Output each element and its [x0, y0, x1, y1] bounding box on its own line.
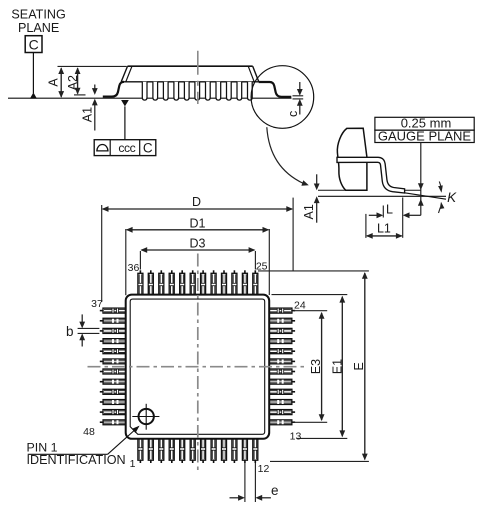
- dimension b: [78, 327, 100, 329]
- body left chamfer edges: [121, 66, 127, 82]
- pin 24 right: [292, 310, 295, 312]
- seating plane line: [8, 97, 292, 99]
- side view lead 12: [248, 82, 253, 100]
- side view lead 3: [153, 82, 158, 100]
- pin 35 top: [150, 270, 152, 273]
- pin 10 bottom: [233, 460, 235, 463]
- side view lead 10: [227, 82, 232, 100]
- 0.25 mm box: [375, 117, 474, 130]
- pin 15 right: [292, 401, 295, 403]
- pin 1 bottom: [139, 460, 141, 463]
- left gull-wing lead: [103, 82, 124, 97]
- pin 13 right: [292, 421, 295, 423]
- pin 25 top: [254, 270, 256, 273]
- pin 12 bottom: [254, 460, 256, 463]
- pin 18 right: [292, 371, 295, 373]
- pin 29 top: [213, 270, 215, 273]
- pin 11 bottom: [244, 460, 246, 463]
- pin 14 right: [292, 411, 295, 413]
- pin 47 left: [100, 411, 103, 413]
- svg-text:SEATING: SEATING: [11, 8, 65, 22]
- pin 23 right: [292, 320, 295, 322]
- svg-text:K: K: [447, 190, 457, 205]
- svg-text:36: 36: [128, 262, 140, 274]
- pin 30 top: [202, 270, 204, 273]
- dimension L: [369, 214, 379, 216]
- pin 45 left: [100, 391, 103, 393]
- datum C box: [25, 36, 42, 53]
- datum C leader and triangle: [32, 53, 34, 94]
- svg-text:E3: E3: [309, 359, 323, 374]
- svg-text:25: 25: [256, 260, 268, 272]
- pin 1 identifier circle: [139, 409, 154, 424]
- pin 48 left: [100, 421, 103, 423]
- dimension D: [101, 205, 103, 302]
- svg-text:IDENTIFICATION: IDENTIFICATION: [27, 453, 126, 467]
- pin 5 bottom: [181, 460, 183, 463]
- pin 20 right: [292, 350, 295, 352]
- dimension c: [299, 82, 301, 91]
- pin 42 left: [100, 360, 103, 362]
- side view lead 4: [163, 82, 168, 100]
- svg-text:PLANE: PLANE: [18, 21, 59, 35]
- svg-text:A1: A1: [80, 107, 94, 122]
- side view lead 5: [174, 82, 179, 100]
- pin 28 top: [223, 270, 225, 273]
- pin 39 left: [100, 330, 103, 332]
- dimension D3: [139, 251, 141, 270]
- dimension A1 detail: [316, 174, 318, 185]
- right gull-wing lead: [259, 82, 292, 97]
- svg-text:D3: D3: [190, 236, 206, 250]
- pin 19 right: [292, 360, 295, 362]
- pin 40 left: [100, 340, 103, 342]
- dimension e: [244, 463, 246, 502]
- pin 2 bottom: [150, 460, 152, 463]
- side view lead 8: [206, 82, 211, 100]
- svg-text:C: C: [29, 36, 39, 52]
- pin 41 left: [100, 350, 103, 352]
- K foot angle line: [405, 193, 446, 199]
- svg-text:A: A: [47, 78, 61, 87]
- pin 8 bottom: [213, 460, 215, 463]
- package body inner edge with pin1 chamfer: [130, 299, 265, 434]
- pin 43 left: [100, 371, 103, 373]
- top view horizontal centerline: [88, 366, 307, 368]
- pin 32 top: [181, 270, 183, 273]
- dimension D1: [125, 229, 127, 295]
- svg-text:e: e: [271, 483, 279, 498]
- package body side view bottom edge: [121, 81, 258, 83]
- pin 7 bottom: [202, 460, 204, 463]
- dimension A2: [74, 94, 86, 96]
- pin 36 top: [139, 270, 141, 273]
- dimension L1: [365, 214, 367, 238]
- dimension A: [60, 68, 62, 97]
- pin 6 bottom: [192, 460, 194, 463]
- gauge plane pointer line: [420, 143, 422, 216]
- dimension E: [258, 270, 369, 272]
- package body outline: [126, 295, 270, 439]
- side view lead 11: [237, 82, 242, 100]
- flatness symbol: [96, 145, 108, 151]
- pin 33 top: [171, 270, 173, 273]
- svg-text:L1: L1: [377, 221, 391, 235]
- pin 38 left: [100, 320, 103, 322]
- pin 34 top: [160, 270, 162, 273]
- gauge plane line: [318, 189, 367, 191]
- pin 46 left: [100, 401, 103, 403]
- dimension A1 side view: [94, 85, 96, 91]
- dimension E1: [272, 294, 348, 296]
- pin 9 bottom: [223, 460, 225, 463]
- detail body section: [337, 128, 367, 190]
- svg-text:c: c: [286, 111, 300, 117]
- dimension A extension line: [58, 65, 127, 67]
- svg-text:C: C: [143, 141, 153, 156]
- body right chamfer edges: [253, 66, 259, 82]
- svg-text:12: 12: [258, 463, 270, 475]
- pin 17 right: [292, 381, 295, 383]
- GAUGE PLANE box: [375, 130, 474, 142]
- svg-text:37: 37: [91, 298, 103, 310]
- pin 3 bottom: [160, 460, 162, 463]
- pin 37 left: [100, 310, 103, 312]
- svg-text:1: 1: [130, 458, 136, 470]
- svg-text:b: b: [66, 324, 74, 339]
- pin 26 top: [244, 270, 246, 273]
- svg-text:A2: A2: [66, 75, 80, 90]
- svg-text:L: L: [386, 203, 393, 217]
- pin 44 left: [100, 381, 103, 383]
- svg-text:ccc: ccc: [118, 141, 135, 155]
- K angle arrows and label: [439, 182, 441, 187]
- package body side view top edge: [128, 65, 253, 67]
- pin 1 leader line: [28, 453, 108, 455]
- svg-text:24: 24: [294, 299, 306, 311]
- pin 16 right: [292, 391, 295, 393]
- ccc datum triangle and leader: [121, 100, 129, 106]
- pin 4 bottom: [171, 460, 173, 463]
- svg-text:D1: D1: [190, 216, 206, 230]
- dimension c extension lines: [293, 95, 304, 97]
- side view lead 2: [142, 82, 147, 100]
- svg-text:A1: A1: [302, 204, 316, 219]
- pin 22 right: [292, 330, 295, 332]
- side view lead 7: [195, 82, 200, 100]
- side view lead 6: [184, 82, 189, 100]
- pin 27 top: [233, 270, 235, 273]
- svg-text:E: E: [352, 362, 366, 370]
- svg-text:D: D: [192, 195, 201, 209]
- flatness control frame: [94, 140, 156, 156]
- pin 31 top: [192, 270, 194, 273]
- pin 21 right: [292, 340, 295, 342]
- dimension E3: [294, 310, 328, 312]
- svg-text:E1: E1: [330, 359, 344, 374]
- svg-text:GAUGE PLANE: GAUGE PLANE: [378, 128, 472, 143]
- detail circle: [251, 66, 314, 129]
- side view lead 9: [216, 82, 221, 100]
- detail seating plane line: [318, 195, 446, 197]
- top view vertical centerline: [197, 254, 199, 473]
- svg-text:13: 13: [290, 430, 302, 442]
- detail leader curve: [267, 127, 304, 183]
- detail lead: [337, 157, 405, 193]
- side view centerline: [197, 51, 199, 104]
- svg-text:48: 48: [83, 426, 95, 438]
